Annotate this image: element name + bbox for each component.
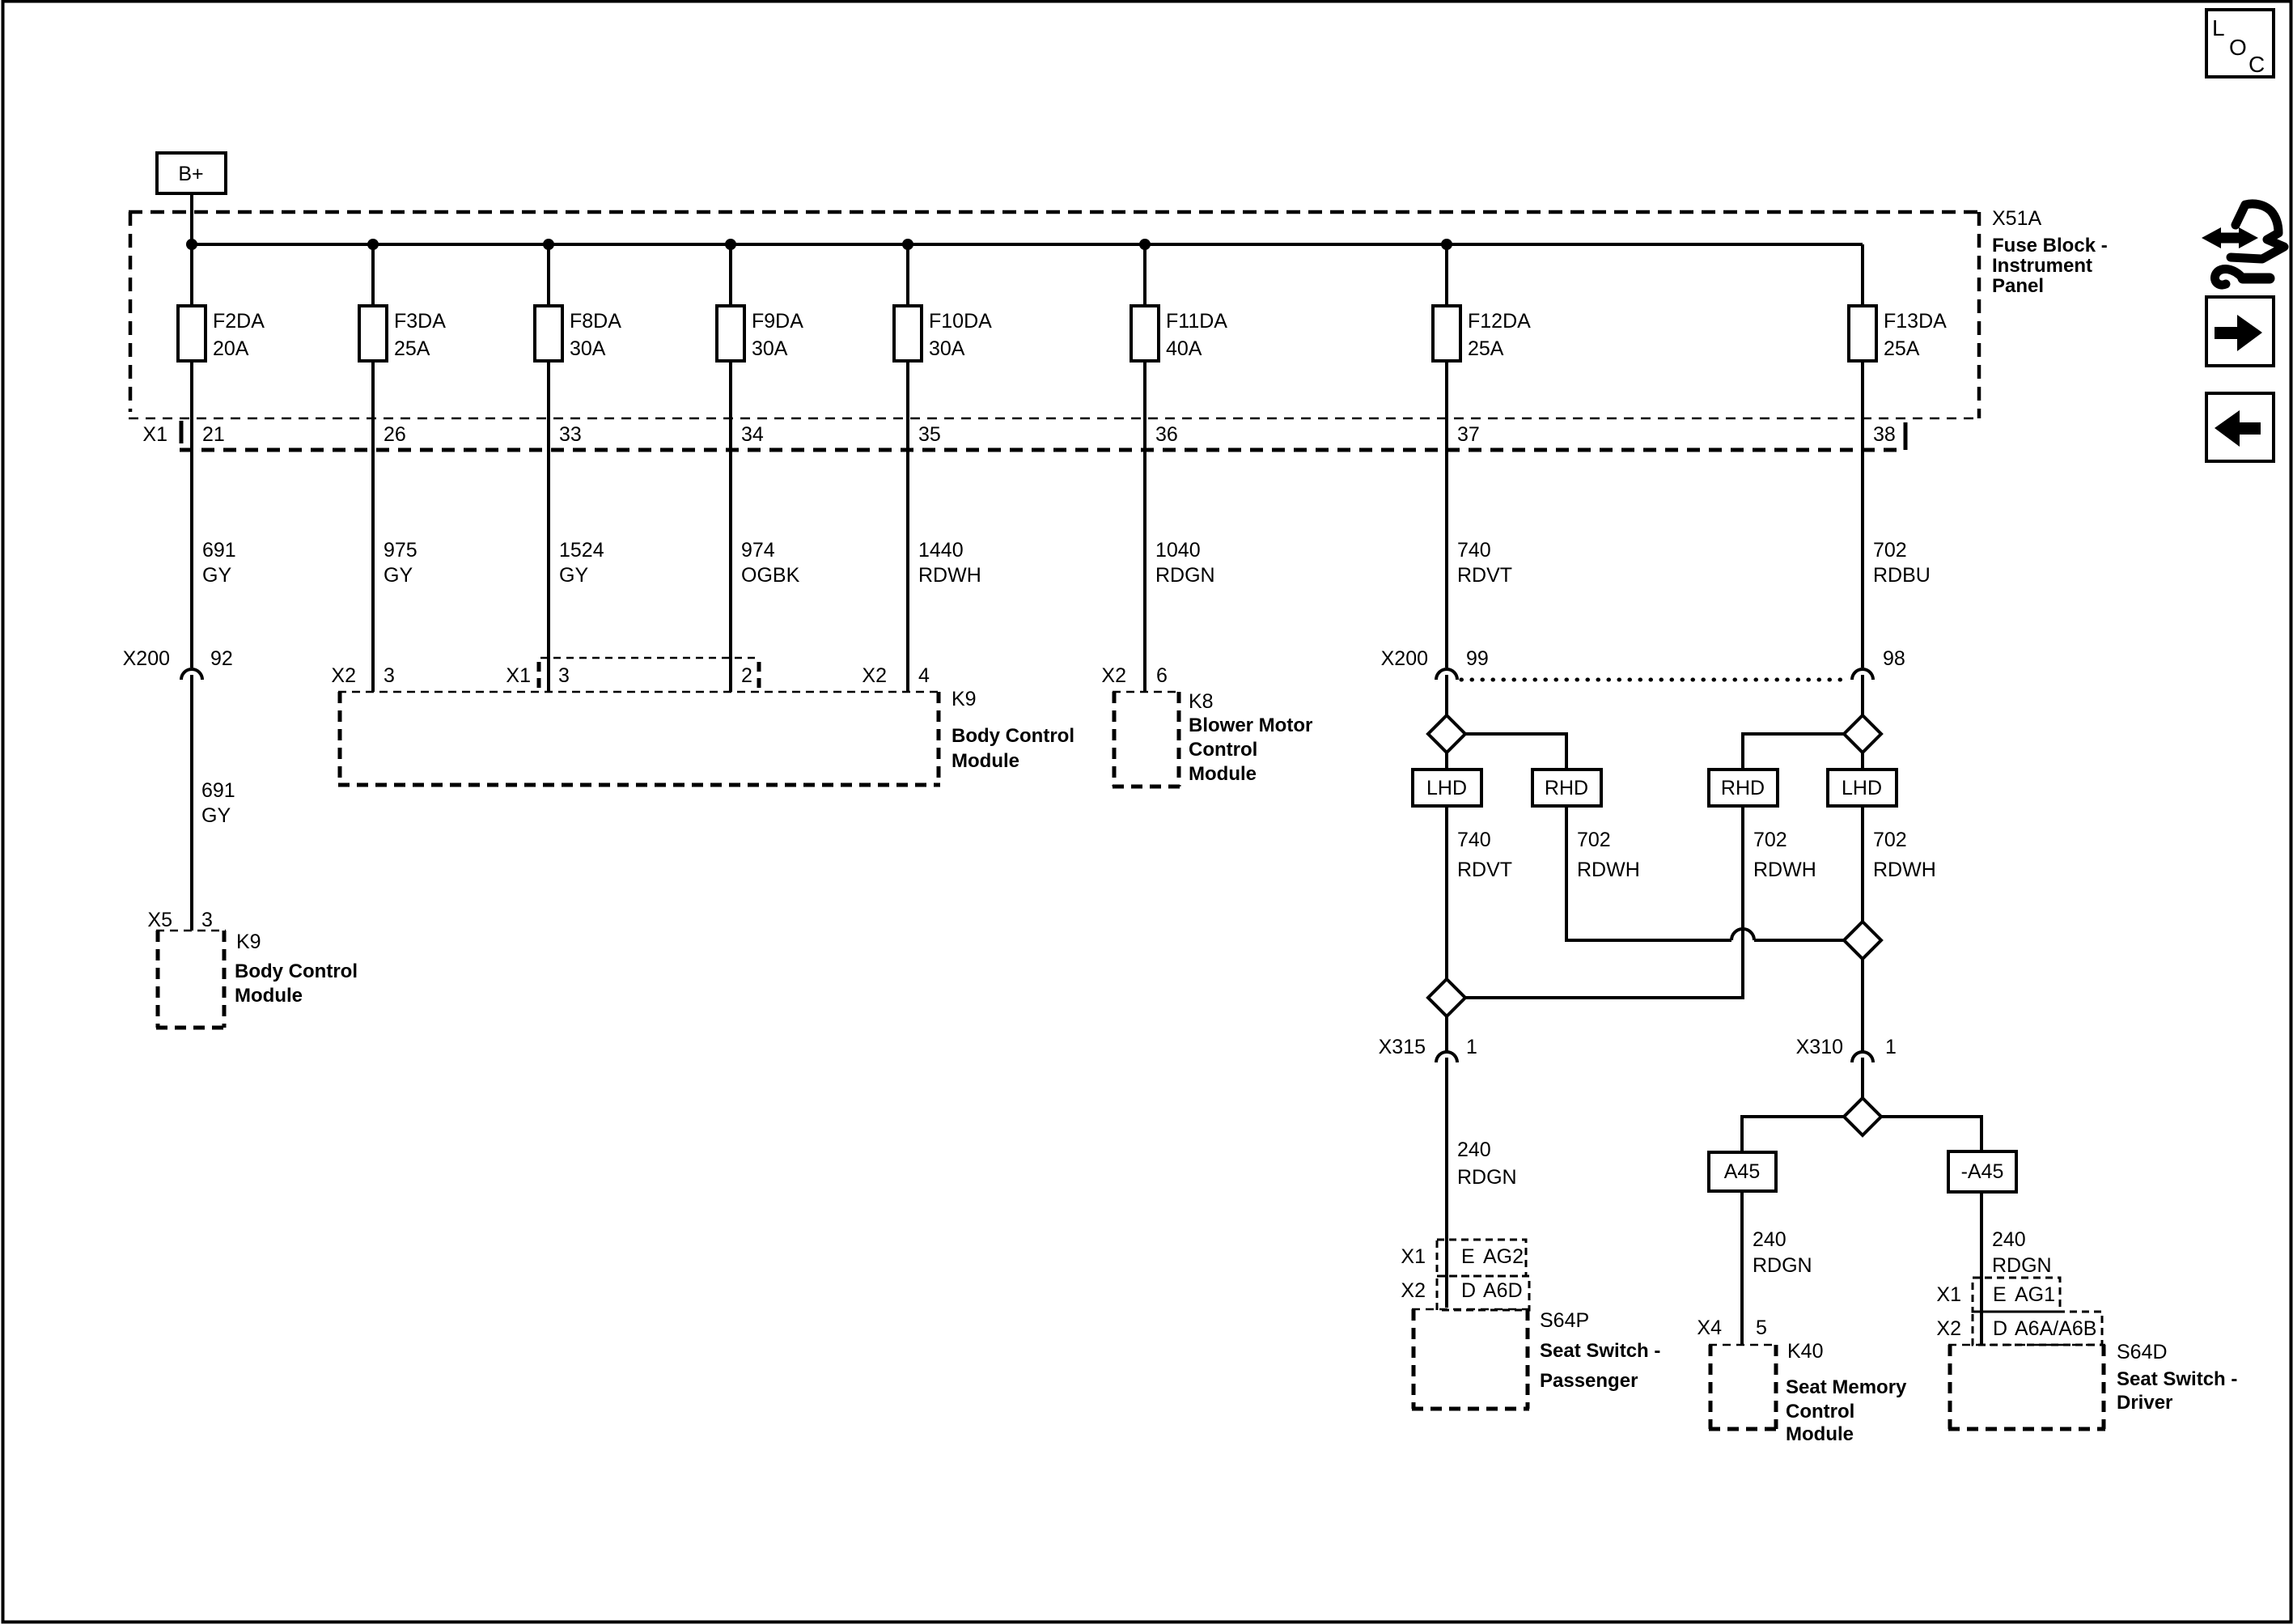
svg-text:D: D [1461, 1279, 1476, 1302]
wire LHD2 down [1861, 806, 1864, 922]
svg-text:RDWH: RDWH [1577, 859, 1640, 881]
svg-text:25A: 25A [1884, 337, 1920, 360]
svg-text:AG1: AG1 [2015, 1283, 2055, 1306]
svg-text:F8DA: F8DA [570, 310, 621, 333]
svg-text:Driver: Driver [2117, 1392, 2172, 1414]
svg-text:D: D [1993, 1317, 2007, 1340]
svg-text:Seat Memory: Seat Memory [1786, 1376, 1907, 1398]
svg-text:GY: GY [201, 804, 231, 827]
connector X4 pin 5 [1697, 1317, 1767, 1339]
wire 740 RDVT from F12DA [1445, 361, 1448, 668]
svg-text:33: 33 [559, 423, 582, 446]
svg-text:S64P: S64P [1540, 1309, 1589, 1332]
svg-text:702: 702 [1873, 539, 1907, 562]
svg-text:GY: GY [202, 564, 231, 587]
connector X200 pin 92 (in-line, left) [123, 647, 233, 680]
fuse F9DA 30A [717, 244, 803, 361]
svg-text:RDWH: RDWH [1753, 859, 1816, 881]
svg-text:1: 1 [1885, 1036, 1897, 1058]
svg-text:25A: 25A [394, 337, 430, 360]
svg-text:38: 38 [1873, 423, 1896, 446]
splice diamond right (702) [1844, 715, 1881, 753]
svg-text:RDGN: RDGN [1992, 1254, 2052, 1277]
connector X1 inner dashed box on K9 [539, 658, 759, 689]
svg-text:F11DA: F11DA [1166, 310, 1227, 333]
wire X310 down to splice [1861, 1058, 1864, 1098]
svg-text:Control: Control [1189, 739, 1257, 761]
svg-text:RDGN: RDGN [1753, 1254, 1812, 1277]
svg-text:Module: Module [235, 985, 303, 1007]
svg-text:S64D: S64D [2117, 1341, 2168, 1363]
forward page arrow box [2206, 297, 2274, 366]
connector X200 pin 99 [1381, 647, 1489, 680]
svg-text:E: E [1461, 1245, 1475, 1268]
connector X5 pin 3 [147, 909, 213, 931]
svg-text:F10DA: F10DA [929, 310, 992, 333]
harness routing icon with double arrow [2202, 204, 2284, 285]
svg-text:Panel: Panel [1992, 275, 2044, 297]
svg-text:5: 5 [1756, 1317, 1767, 1339]
svg-text:X1: X1 [1401, 1245, 1426, 1268]
svg-text:RDVT: RDVT [1457, 564, 1512, 587]
svg-text:240: 240 [1457, 1138, 1491, 1161]
svg-text:Passenger: Passenger [1540, 1370, 1638, 1392]
svg-text:C: C [2248, 52, 2265, 77]
wire branch D2 to RHD [1743, 734, 1844, 770]
LOC reference box [2206, 10, 2274, 77]
option box RHD [1532, 770, 1601, 806]
svg-text:Fuse Block -: Fuse Block - [1992, 235, 2108, 257]
svg-text:X1: X1 [1936, 1283, 1961, 1306]
svg-text:30A: 30A [929, 337, 965, 360]
svg-text:92: 92 [210, 647, 233, 670]
junction dot at x=903 [725, 239, 736, 250]
svg-text:X2: X2 [1401, 1279, 1426, 1302]
svg-text:Module: Module [952, 750, 1019, 772]
svg-text:1524: 1524 [559, 539, 604, 562]
svg-text:Seat Switch -: Seat Switch - [2117, 1368, 2237, 1390]
svg-text:3: 3 [384, 664, 395, 687]
svg-text:98: 98 [1883, 647, 1905, 670]
wire 702 below connector 98 [1861, 675, 1864, 715]
svg-text:E: E [1993, 1283, 2007, 1306]
wire 975 GY from F3DA [371, 361, 375, 692]
junction dot at x=1415 [1139, 239, 1151, 250]
wire branch D1 to RHD [1465, 734, 1566, 770]
fuse F12DA 25A [1433, 244, 1531, 361]
svg-text:GY: GY [559, 564, 588, 587]
junction dot at x=1122 [902, 239, 913, 250]
svg-text:-A45: -A45 [1961, 1160, 2004, 1183]
svg-text:34: 34 [741, 423, 764, 446]
svg-text:A6A/A6B: A6A/A6B [2015, 1317, 2096, 1340]
svg-text:240: 240 [1992, 1228, 2026, 1251]
wire 974 OGBK from F9DA [729, 361, 732, 692]
wire B+ stub [190, 193, 193, 244]
label X51A Fuse Block - Instrument Panel [1992, 207, 2108, 297]
module S64D Seat Switch - Driver [1948, 1345, 2105, 1429]
svg-text:X2: X2 [331, 664, 356, 687]
module S64P Seat Switch - Passenger [1412, 1309, 1529, 1409]
svg-text:LHD: LHD [1842, 777, 1882, 799]
connector rows X1 / X2 of S64P [1437, 1240, 1529, 1310]
svg-text:21: 21 [202, 423, 225, 446]
junction dot at x=678 [543, 239, 554, 250]
connector X315 pin 1 [1379, 1036, 1477, 1062]
svg-text:99: 99 [1466, 647, 1489, 670]
wire 1040 RDGN from F11DA [1143, 361, 1146, 692]
wire branch to A45 [1742, 1117, 1844, 1152]
option box LHD [1828, 770, 1897, 806]
svg-text:2: 2 [741, 664, 752, 687]
svg-text:Body Control: Body Control [952, 725, 1074, 747]
svg-text:B+: B+ [178, 163, 203, 185]
wire A45 down [1740, 1191, 1744, 1345]
svg-text:240: 240 [1753, 1228, 1787, 1251]
fuse F10DA 30A [894, 244, 992, 361]
module K8 Blower Motor Control Module [1113, 692, 1180, 787]
svg-text:K8: K8 [1189, 690, 1214, 713]
node B+ battery feed [157, 153, 226, 193]
option box A45 [1709, 1152, 1776, 1191]
junction dot at x=237 [186, 239, 197, 250]
svg-text:F2DA: F2DA [213, 310, 265, 333]
wire 740 below connector 99 [1445, 675, 1448, 715]
svg-text:25A: 25A [1468, 337, 1504, 360]
splice diamond at X315 drop [1428, 979, 1465, 1016]
svg-text:1440: 1440 [918, 539, 964, 562]
svg-text:RHD: RHD [1545, 777, 1588, 799]
svg-text:1: 1 [1466, 1036, 1477, 1058]
svg-text:L: L [2212, 15, 2225, 40]
svg-text:Seat Switch -: Seat Switch - [1540, 1340, 1660, 1362]
svg-text:A6D: A6D [1483, 1279, 1523, 1302]
wire D4 down to X315 [1445, 1016, 1448, 1052]
svg-text:702: 702 [1577, 829, 1611, 851]
splice diamond at 702/740 join [1844, 922, 1881, 959]
wire main bus [192, 243, 1863, 246]
fuse F2DA 20A [178, 244, 265, 361]
svg-text:X2: X2 [1101, 664, 1126, 687]
connector X310 pin 1 [1796, 1036, 1897, 1062]
wire 1524 GY from F8DA [547, 361, 550, 692]
svg-text:Module: Module [1786, 1423, 1854, 1445]
wire 1440 RDWH from F10DA [906, 361, 909, 692]
svg-text:Module: Module [1189, 763, 1257, 785]
wire branch to -A45 [1881, 1117, 1981, 1151]
svg-text:30A: 30A [570, 337, 606, 360]
svg-text:702: 702 [1873, 829, 1907, 851]
svg-text:K40: K40 [1787, 1340, 1823, 1363]
svg-text:F12DA: F12DA [1468, 310, 1531, 333]
svg-text:691: 691 [201, 779, 235, 802]
svg-text:RHD: RHD [1721, 777, 1765, 799]
label K9 Body Control Module [952, 688, 1074, 772]
connector rows X1 / X2 of S64D [1973, 1278, 2102, 1345]
svg-text:RDGN: RDGN [1155, 564, 1215, 587]
wire 702 RDBU from F13DA [1861, 361, 1864, 668]
connector pin 98 [1852, 647, 1905, 680]
splice diamond left (740) [1428, 715, 1465, 753]
fuse block X51A dashed outline [129, 212, 1981, 418]
fuse F8DA 30A [535, 244, 621, 361]
svg-text:3: 3 [201, 909, 213, 931]
svg-text:X5: X5 [147, 909, 172, 931]
option box -A45 [1948, 1151, 2016, 1192]
svg-text:975: 975 [384, 539, 417, 562]
svg-text:K9: K9 [236, 931, 261, 953]
pin X2 6 into K8 [1101, 664, 1168, 687]
junction dot at x=1788 [1441, 239, 1452, 250]
svg-text:OGBK: OGBK [741, 564, 800, 587]
svg-text:F13DA: F13DA [1884, 310, 1947, 333]
svg-text:X200: X200 [1381, 647, 1428, 670]
svg-text:X51A: X51A [1992, 207, 2041, 230]
wire LHD1 down [1445, 806, 1448, 979]
svg-text:O: O [2229, 35, 2247, 60]
svg-text:X1: X1 [506, 664, 531, 687]
connector X1 strip of fuse block [129, 418, 1979, 450]
fuse F13DA 25A [1849, 244, 1947, 361]
svg-text:Control: Control [1786, 1401, 1854, 1423]
svg-text:Blower Motor: Blower Motor [1189, 714, 1312, 736]
svg-text:20A: 20A [213, 337, 249, 360]
svg-text:A45: A45 [1724, 1160, 1760, 1183]
wire -A45 down [1980, 1192, 1983, 1345]
option box LHD [1413, 770, 1481, 806]
splice diamond A45/-A45 [1844, 1098, 1881, 1135]
svg-text:36: 36 [1155, 423, 1178, 446]
dotted harness tie line between 99 and 98 [1461, 678, 1848, 682]
svg-text:X310: X310 [1796, 1036, 1843, 1058]
svg-text:740: 740 [1457, 539, 1491, 562]
svg-text:974: 974 [741, 539, 775, 562]
svg-text:691: 691 [202, 539, 236, 562]
svg-text:6: 6 [1156, 664, 1168, 687]
svg-text:X2: X2 [862, 664, 887, 687]
wire D1 to LHD [1445, 753, 1448, 770]
wire RHD2 down then left [1465, 806, 1743, 998]
svg-text:1040: 1040 [1155, 539, 1201, 562]
svg-text:Instrument: Instrument [1992, 255, 2092, 277]
svg-text:RDBU: RDBU [1873, 564, 1931, 587]
module K9 Body Control Module (X5 side) [156, 931, 226, 1028]
back page arrow box [2206, 393, 2274, 461]
fuse F3DA 25A [359, 244, 446, 361]
junction dot at x=461 [367, 239, 379, 250]
svg-text:RDVT: RDVT [1457, 859, 1512, 881]
svg-text:35: 35 [918, 423, 941, 446]
svg-text:X4: X4 [1697, 1317, 1722, 1339]
pin labels into K9 [331, 664, 930, 687]
svg-text:F3DA: F3DA [394, 310, 446, 333]
svg-text:LHD: LHD [1426, 777, 1467, 799]
svg-text:AG2: AG2 [1483, 1245, 1524, 1268]
wire 691 GY from F2DA [190, 361, 193, 668]
svg-text:GY: GY [384, 564, 413, 587]
svg-text:26: 26 [384, 423, 406, 446]
svg-text:X1: X1 [142, 423, 167, 446]
option box RHD [1709, 770, 1778, 806]
svg-text:X200: X200 [123, 647, 170, 670]
svg-text:RDGN: RDGN [1457, 1166, 1517, 1189]
svg-text:X315: X315 [1379, 1036, 1426, 1058]
svg-text:37: 37 [1457, 423, 1480, 446]
wire 691 GY lower segment [190, 675, 193, 931]
wire RHD1 down and right with hop [1566, 806, 1731, 940]
svg-text:740: 740 [1457, 829, 1491, 851]
svg-text:K9: K9 [952, 688, 977, 710]
wire D3 down to X310 [1861, 959, 1864, 1051]
wire 240 RDGN passenger [1445, 1058, 1448, 1308]
module K9 Body Control Module (main) [338, 692, 940, 785]
label K8 Blower Motor Control Module [1189, 690, 1312, 785]
svg-text:RDWH: RDWH [918, 564, 981, 587]
svg-text:702: 702 [1753, 829, 1787, 851]
wire D2 to LHD [1861, 753, 1864, 770]
module K40 Seat Memory Control Module [1709, 1345, 1778, 1429]
svg-text:4: 4 [918, 664, 930, 687]
svg-text:3: 3 [558, 664, 570, 687]
svg-text:Body Control: Body Control [235, 960, 358, 982]
svg-text:F9DA: F9DA [752, 310, 803, 333]
svg-text:30A: 30A [752, 337, 788, 360]
svg-text:40A: 40A [1166, 337, 1202, 360]
svg-text:RDWH: RDWH [1873, 859, 1936, 881]
fuse F11DA 40A [1131, 244, 1227, 361]
svg-text:X2: X2 [1936, 1317, 1961, 1340]
